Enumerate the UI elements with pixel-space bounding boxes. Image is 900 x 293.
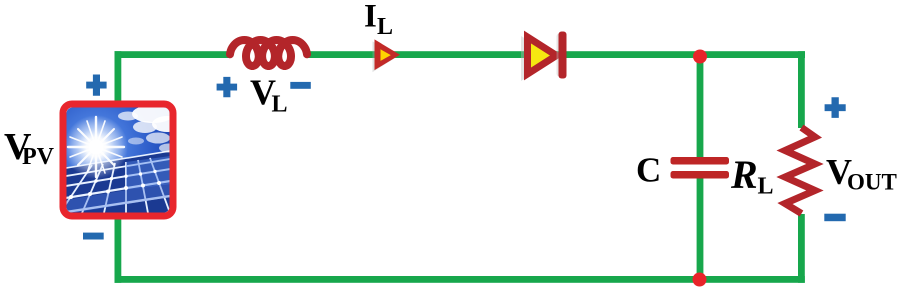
PV panel VPV — [60, 104, 182, 216]
svg-text:OUT: OUT — [847, 169, 897, 194]
polarity - (VL right) — [290, 82, 311, 89]
svg-text:L: L — [272, 92, 288, 118]
capacitor C plates — [671, 157, 730, 179]
wire left vertical upper (corner to PV top) — [115, 51, 122, 107]
inductor (coil) — [230, 40, 307, 66]
svg-text:L: L — [377, 14, 393, 40]
polarity - (VOUT bottom) — [824, 214, 845, 222]
svg-text:C: C — [636, 151, 661, 190]
polarity + (VOUT top) — [825, 97, 846, 118]
wire right vertical upper (corner to resistor) — [798, 51, 805, 128]
svg-text:I: I — [364, 0, 377, 35]
svg-text:PV: PV — [22, 144, 55, 170]
resistor RL zigzag — [785, 128, 815, 214]
solar panel grid — [60, 151, 170, 214]
node (top junction) — [693, 50, 707, 64]
wire capacitor branch lower — [697, 178, 704, 280]
node (bottom junction) — [693, 273, 707, 287]
wire right vertical lower (resistor to corner) — [798, 214, 805, 283]
wire top right segment (junction to corner) — [700, 51, 805, 58]
svg-text:R: R — [730, 152, 758, 197]
wire left vertical lower (PV bottom to corner) — [115, 213, 122, 283]
wire capacitor branch upper — [697, 54, 704, 158]
clouds — [118, 105, 182, 153]
sun burst — [64, 115, 128, 179]
svg-text:L: L — [758, 174, 774, 200]
wire bottom horizontal — [115, 276, 805, 283]
polarity - (PV bottom) — [83, 233, 104, 240]
polarity + (PV top) — [86, 75, 106, 96]
current arrow IL — [373, 39, 401, 72]
diode — [521, 32, 567, 82]
wire top-left horizontal segment — [115, 51, 230, 58]
polarity + (VL left) — [217, 77, 238, 97]
wire top middle segment (inductor right to junction) — [308, 51, 700, 58]
